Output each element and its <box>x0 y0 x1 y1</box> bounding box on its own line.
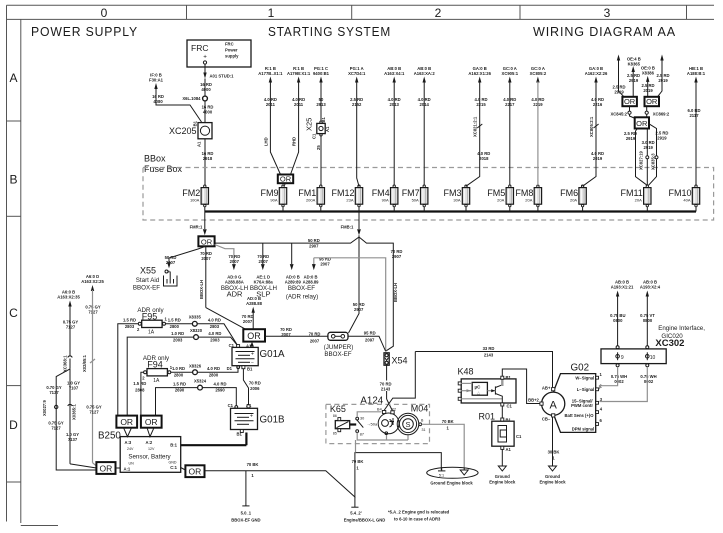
svg-text:B: B <box>9 173 17 187</box>
svg-text:XC7D4:1: XC7D4:1 <box>348 71 366 76</box>
svg-text:BBOX-LH: BBOX-LH <box>393 283 398 302</box>
svg-text:A177B..X1:1: A177B..X1:1 <box>258 71 283 76</box>
svg-text:7137: 7137 <box>68 437 78 442</box>
svg-text:2907: 2907 <box>354 307 364 312</box>
svg-text:FRC: FRC <box>191 43 208 53</box>
svg-text:R01: R01 <box>479 412 496 422</box>
svg-text:2919: 2919 <box>644 145 654 150</box>
svg-text:OR: OR <box>189 467 202 477</box>
svg-text:2907: 2907 <box>392 254 402 259</box>
svg-text:9: 9 <box>621 355 624 361</box>
svg-text:2019: 2019 <box>593 156 603 161</box>
svg-text:B1: B1 <box>247 367 253 372</box>
svg-text:X0027:9: X0027:9 <box>42 399 47 416</box>
svg-text:Ground: Ground <box>545 474 561 479</box>
svg-text:Engine/BBOX-L GND: Engine/BBOX-L GND <box>344 517 386 522</box>
svg-text:2919: 2919 <box>657 136 667 141</box>
svg-text:OR: OR <box>247 331 261 341</box>
svg-text:OR: OR <box>646 97 658 106</box>
svg-text:1.5 RD: 1.5 RD <box>133 381 146 386</box>
svg-text:supply: supply <box>225 54 239 59</box>
svg-text:B4: B4 <box>377 407 382 411</box>
svg-text:85: 85 <box>333 432 337 436</box>
svg-text:A: A <box>550 399 558 411</box>
svg-text:2907: 2907 <box>309 244 319 249</box>
svg-text:2803: 2803 <box>125 324 135 329</box>
svg-text:30A: 30A <box>453 197 460 202</box>
svg-text:1A: 1A <box>148 330 155 336</box>
svg-text:UN: UN <box>129 461 135 465</box>
svg-text:−: − <box>251 360 254 366</box>
svg-text:C1: C1 <box>228 403 234 408</box>
svg-text:C1: C1 <box>312 133 317 139</box>
svg-text:1.0 RD: 1.0 RD <box>172 366 185 371</box>
svg-text:50 RD: 50 RD <box>308 238 320 243</box>
svg-text:2007: 2007 <box>320 261 330 266</box>
svg-text:AB+: AB+ <box>542 385 551 390</box>
svg-text:A: A <box>9 71 17 85</box>
svg-text:200A: 200A <box>306 197 316 202</box>
svg-text:2117: 2117 <box>689 113 699 118</box>
svg-text:1.5 RD: 1.5 RD <box>123 318 136 323</box>
svg-text:4000: 4000 <box>201 87 211 92</box>
svg-text:2690: 2690 <box>175 388 185 393</box>
svg-text:2007: 2007 <box>201 256 211 261</box>
svg-text:B1: B1 <box>506 418 512 423</box>
svg-text:L−Signal: L−Signal <box>577 387 595 392</box>
svg-text:Engine block: Engine block <box>539 480 566 485</box>
svg-text:A163:X2:35: A163:X2:35 <box>57 294 80 299</box>
svg-text:1A: 1A <box>153 378 160 384</box>
svg-text:A:2: A:2 <box>146 440 153 445</box>
svg-text:B1: B1 <box>506 375 512 380</box>
svg-text:7127: 7127 <box>89 410 99 415</box>
svg-text:G01B: G01B <box>260 415 286 426</box>
svg-text:4080: 4080 <box>153 99 163 104</box>
svg-text:G02: G02 <box>571 363 590 374</box>
svg-text:3: 3 <box>604 6 611 20</box>
svg-text:OR: OR <box>145 417 158 427</box>
svg-text:7127: 7127 <box>88 310 98 315</box>
svg-text:5:1: 5:1 <box>439 474 444 478</box>
svg-text:+: + <box>203 54 207 61</box>
svg-text:→50a: →50a <box>367 422 378 427</box>
svg-text:OR: OR <box>636 119 648 128</box>
svg-text:20A: 20A <box>635 197 642 202</box>
svg-text:A1: A1 <box>325 126 330 132</box>
svg-text:BB+2: BB+2 <box>528 398 539 403</box>
svg-text:2003: 2003 <box>173 338 183 343</box>
svg-text:D1: D1 <box>227 366 233 371</box>
svg-text:RHD: RHD <box>292 137 297 146</box>
svg-text:(ADR relay): (ADR relay) <box>286 294 318 301</box>
svg-text:7137: 7137 <box>49 390 59 395</box>
svg-text:79 BK: 79 BK <box>352 459 364 464</box>
svg-text:0002: 0002 <box>614 379 624 384</box>
svg-text:70 RD: 70 RD <box>309 332 321 337</box>
svg-text:2007: 2007 <box>230 259 240 264</box>
svg-text:B250: B250 <box>98 431 121 442</box>
svg-text:XC869:2: XC869:2 <box>653 112 670 117</box>
svg-text:2216: 2216 <box>593 102 603 107</box>
svg-text:4000: 4000 <box>203 110 213 115</box>
svg-text:GND: GND <box>169 461 177 465</box>
svg-text:A162:X1:26: A162:X1:26 <box>468 71 491 76</box>
svg-text:2808: 2808 <box>135 387 145 392</box>
svg-text:X6L.1084: X6L.1084 <box>182 96 201 101</box>
svg-text:2007: 2007 <box>243 319 253 324</box>
svg-text:A193:X2:4: A193:X2:4 <box>640 284 661 289</box>
svg-text:K8365: K8365 <box>628 61 641 66</box>
svg-text:25: 25 <box>316 145 321 150</box>
svg-text:X2: X2 <box>392 407 397 411</box>
svg-text:Power: Power <box>225 48 238 53</box>
svg-text:1.5 RD: 1.5 RD <box>168 318 181 323</box>
svg-text:K48: K48 <box>458 367 474 377</box>
svg-text:(JUMPER): (JUMPER) <box>324 344 354 351</box>
svg-text:BBOX-EF: BBOX-EF <box>324 351 351 358</box>
svg-text:A163:X2:25: A163:X2:25 <box>81 279 104 284</box>
svg-text:K65: K65 <box>330 404 346 414</box>
svg-text:A162:X2:26: A162:X2:26 <box>585 71 608 76</box>
svg-text:FRC: FRC <box>225 42 234 47</box>
svg-text:2018: 2018 <box>479 156 489 161</box>
svg-text:2690: 2690 <box>215 388 225 393</box>
svg-text:0800: 0800 <box>643 318 653 323</box>
svg-text:4.0 RD: 4.0 RD <box>208 318 221 323</box>
svg-text:Sensor, Battery: Sensor, Battery <box>128 453 171 460</box>
svg-text:A:1: A:1 <box>124 467 131 472</box>
svg-text:BBOX-EF: BBOX-EF <box>133 285 160 292</box>
svg-text:95 RD: 95 RD <box>364 331 376 336</box>
svg-text:OR: OR <box>624 97 636 106</box>
svg-text:XC805:2:1: XC805:2:1 <box>589 116 594 137</box>
svg-text:X5324: X5324 <box>194 379 207 384</box>
svg-text:2: 2 <box>435 6 442 20</box>
svg-text:2143: 2143 <box>484 352 494 357</box>
svg-text:86: 86 <box>333 414 337 418</box>
svg-text:G01A: G01A <box>260 349 286 360</box>
svg-text:A188:B:1: A188:B:1 <box>687 71 706 76</box>
svg-text:A1: A1 <box>197 141 202 147</box>
svg-text:X54: X54 <box>392 356 408 366</box>
svg-text:OR: OR <box>120 417 133 427</box>
svg-text:90A: 90A <box>270 197 277 202</box>
svg-text:5.0_1: 5.0_1 <box>241 511 252 516</box>
svg-text:20A: 20A <box>497 197 504 202</box>
svg-text:X02/65:1: X02/65:1 <box>82 354 87 372</box>
svg-text:40A: 40A <box>683 197 690 202</box>
svg-text:2800: 2800 <box>209 372 219 377</box>
svg-text:2007: 2007 <box>310 339 320 344</box>
svg-text:1: 1 <box>268 6 275 20</box>
svg-text:2003: 2003 <box>210 338 220 343</box>
svg-text:4.0 RD: 4.0 RD <box>213 381 226 386</box>
svg-text:BBOX-EF: BBOX-EF <box>288 285 315 292</box>
svg-text:LHD: LHD <box>264 137 269 146</box>
svg-text:B1: B1 <box>237 432 243 437</box>
svg-text:XC845:2: XC845:2 <box>610 112 627 117</box>
svg-text:2007: 2007 <box>281 332 291 337</box>
svg-text:Ground: Ground <box>495 474 511 479</box>
svg-text:Engine block: Engine block <box>489 480 516 485</box>
svg-text:5.4_2': 5.4_2' <box>350 511 361 516</box>
svg-text:2006: 2006 <box>250 386 260 391</box>
svg-text:A193:X1:21: A193:X1:21 <box>611 284 634 289</box>
svg-text:2919: 2919 <box>658 78 668 83</box>
svg-text:9400:B1: 9400:B1 <box>313 71 330 76</box>
svg-text:12V: 12V <box>148 447 155 451</box>
svg-text:to 6-10 in case of ADR3: to 6-10 in case of ADR3 <box>394 516 441 521</box>
svg-text:X8335: X8335 <box>189 315 202 320</box>
svg-text:*5.A_2 Engine gnd is relocated: *5.A_2 Engine gnd is relocated <box>388 510 450 515</box>
svg-text:A288.88: A288.88 <box>246 301 263 306</box>
svg-text:4.0 RD: 4.0 RD <box>208 331 221 336</box>
svg-text:2215: 2215 <box>476 102 486 107</box>
svg-text:C:1: C:1 <box>170 465 177 470</box>
svg-text:FMR:1: FMR:1 <box>190 224 203 229</box>
svg-text:A179B:X1:1: A179B:X1:1 <box>287 71 311 76</box>
svg-text:A:3: A:3 <box>125 440 132 445</box>
svg-text:2143: 2143 <box>381 386 391 391</box>
svg-text:7107: 7107 <box>69 386 79 391</box>
svg-text:X55: X55 <box>140 266 156 276</box>
svg-text:70 BK: 70 BK <box>247 462 259 467</box>
svg-text:µC: µC <box>475 384 482 389</box>
svg-text:+: + <box>250 413 253 419</box>
svg-text:XC368:1: XC368:1 <box>62 355 67 372</box>
svg-text:X8320: X8320 <box>190 328 203 333</box>
svg-text:PWM contr: PWM contr <box>571 403 593 408</box>
svg-text:D: D <box>9 418 18 432</box>
svg-text:X8326: X8326 <box>189 363 202 368</box>
svg-text:10: 10 <box>650 355 656 361</box>
svg-text:B:1: B:1 <box>170 443 177 448</box>
svg-text:XC805:2: XC805:2 <box>530 71 547 76</box>
svg-text:0800: 0800 <box>613 318 623 323</box>
svg-text:X8386: X8386 <box>642 70 655 75</box>
svg-text:DPM signal: DPM signal <box>572 427 595 432</box>
svg-text:2918: 2918 <box>203 156 213 161</box>
svg-text:20A: 20A <box>525 197 532 202</box>
svg-text:70 RD: 70 RD <box>249 380 261 385</box>
svg-text:XC821:2:1: XC821:2:1 <box>473 116 478 137</box>
svg-text:2019: 2019 <box>643 88 653 93</box>
svg-text:BBox: BBox <box>144 154 166 164</box>
svg-text:4.0 RD: 4.0 RD <box>207 366 220 371</box>
svg-text:2007: 2007 <box>166 260 176 265</box>
svg-text:X25: X25 <box>305 118 314 131</box>
svg-text:A163:XA:2: A163:XA:2 <box>414 71 436 76</box>
svg-text:W−Signal: W−Signal <box>575 376 594 381</box>
svg-text:STARTING SYSTEM: STARTING SYSTEM <box>268 24 391 39</box>
svg-text:2097: 2097 <box>365 338 375 343</box>
svg-text:B1: B1 <box>321 116 326 122</box>
svg-text:2919: 2919 <box>629 78 639 83</box>
svg-text:C: C <box>9 306 18 320</box>
svg-text:31: 31 <box>422 428 426 432</box>
svg-text:XC827:19: XC827:19 <box>639 150 644 170</box>
svg-text:0002: 0002 <box>644 379 654 384</box>
svg-text:7127: 7127 <box>51 426 61 431</box>
svg-text:X0365:1: X0365:1 <box>72 403 77 420</box>
svg-text:OR: OR <box>280 175 292 184</box>
svg-text:Start Aid: Start Aid <box>136 277 160 284</box>
svg-text:XC905:1: XC905:1 <box>502 71 519 76</box>
svg-text:1.0 RD: 1.0 RD <box>171 331 184 336</box>
svg-text:A1: A1 <box>506 447 512 452</box>
svg-text:XC835:3: XC835:3 <box>650 153 655 170</box>
svg-text:FMB:1: FMB:1 <box>341 224 354 229</box>
svg-text:BBOX-EF GND: BBOX-EF GND <box>231 517 260 522</box>
svg-text:S: S <box>405 420 410 429</box>
svg-text:30: 30 <box>360 416 364 420</box>
svg-text:WIRING DIAGRAM AA: WIRING DIAGRAM AA <box>533 24 676 39</box>
svg-text:24V: 24V <box>127 447 134 451</box>
svg-text:70 BK: 70 BK <box>442 419 454 424</box>
svg-text:20A: 20A <box>570 197 577 202</box>
svg-text:C1: C1 <box>516 434 522 439</box>
svg-text:7127: 7127 <box>66 325 76 330</box>
svg-text:F30:A1: F30:A1 <box>149 78 164 83</box>
svg-text:ADR: ADR <box>227 290 243 299</box>
svg-text:30 BK: 30 BK <box>548 449 560 454</box>
svg-text:23A: 23A <box>346 197 353 202</box>
svg-text:90A: 90A <box>382 197 389 202</box>
svg-text:0: 0 <box>101 6 108 20</box>
svg-text:OR: OR <box>201 237 213 246</box>
svg-text:Fuse Box: Fuse Box <box>144 164 183 174</box>
svg-text:+: + <box>251 351 254 357</box>
svg-text:Batt Sens (+)O: Batt Sens (+)O <box>565 413 595 418</box>
svg-text:87: 87 <box>360 432 364 436</box>
svg-text:33 RD: 33 RD <box>483 346 495 351</box>
svg-text:Engine Interface,: Engine Interface, <box>658 325 705 332</box>
svg-text:2800: 2800 <box>170 324 180 329</box>
svg-text:BBOX-LH: BBOX-LH <box>199 280 204 299</box>
svg-text:OR: OR <box>100 463 113 473</box>
svg-text:C1: C1 <box>507 403 513 408</box>
svg-text:A01 STUD:1: A01 STUD:1 <box>210 74 235 79</box>
svg-text:F94: F94 <box>147 359 163 369</box>
svg-text:2800: 2800 <box>174 372 184 377</box>
svg-text:50A: 50A <box>412 197 419 202</box>
svg-text:100A: 100A <box>190 197 200 202</box>
svg-text:2803: 2803 <box>210 324 220 329</box>
svg-text:M04: M04 <box>411 404 429 414</box>
svg-text:Ground Engine block: Ground Engine block <box>430 480 473 485</box>
svg-text:2007: 2007 <box>259 259 269 264</box>
svg-text:XC205: XC205 <box>169 126 197 136</box>
svg-text:A163:X4:1: A163:X4:1 <box>384 71 405 76</box>
svg-text:1.5 RD: 1.5 RD <box>173 381 186 386</box>
svg-text:XC302: XC302 <box>655 338 684 349</box>
svg-text:2919: 2919 <box>626 136 636 141</box>
svg-text:CB−: CB− <box>542 417 551 422</box>
svg-text:POWER SUPPLY: POWER SUPPLY <box>31 24 138 39</box>
